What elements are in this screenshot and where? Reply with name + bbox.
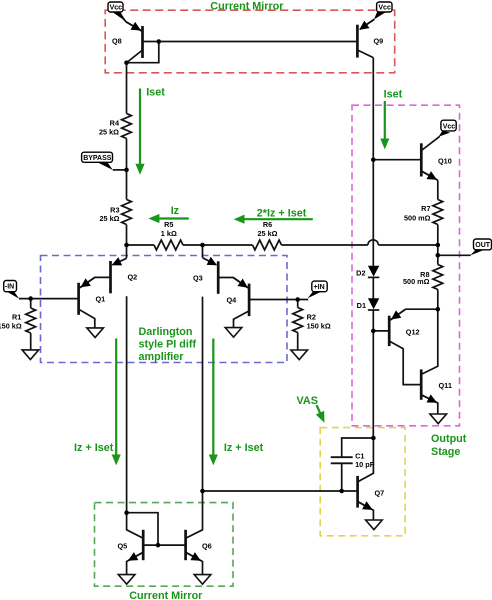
svg-text:Current Mirror: Current Mirror bbox=[129, 590, 203, 600]
svg-text:C1: C1 bbox=[355, 451, 364, 460]
svg-text:Q6: Q6 bbox=[202, 542, 212, 551]
svg-text:Vcc: Vcc bbox=[443, 123, 456, 130]
svg-text:150 kΩ: 150 kΩ bbox=[0, 321, 22, 330]
svg-text:25 kΩ: 25 kΩ bbox=[99, 214, 119, 223]
svg-text:R7: R7 bbox=[421, 204, 430, 213]
svg-text:Current Mirror: Current Mirror bbox=[210, 0, 284, 12]
svg-text:Q1: Q1 bbox=[96, 295, 106, 304]
svg-text:+IN: +IN bbox=[314, 284, 325, 291]
svg-text:Output: Output bbox=[431, 433, 467, 445]
svg-text:VAS: VAS bbox=[297, 395, 318, 407]
svg-text:style PI diff: style PI diff bbox=[139, 338, 197, 350]
svg-text:BYPASS: BYPASS bbox=[83, 155, 112, 162]
svg-text:-IN: -IN bbox=[5, 284, 14, 291]
svg-text:Q12: Q12 bbox=[406, 327, 420, 336]
svg-text:2*Iz + Iset: 2*Iz + Iset bbox=[257, 207, 307, 219]
svg-text:Vcc: Vcc bbox=[110, 5, 123, 12]
svg-text:Stage: Stage bbox=[431, 446, 460, 458]
svg-text:Q2: Q2 bbox=[128, 273, 138, 282]
svg-text:D1: D1 bbox=[357, 301, 366, 310]
svg-text:Q11: Q11 bbox=[439, 381, 452, 390]
svg-text:Iz + Iset: Iz + Iset bbox=[74, 442, 114, 454]
svg-text:1 kΩ: 1 kΩ bbox=[161, 229, 177, 238]
svg-text:Q5: Q5 bbox=[118, 542, 128, 551]
svg-text:500 mΩ: 500 mΩ bbox=[403, 277, 430, 286]
svg-text:500 mΩ: 500 mΩ bbox=[404, 213, 431, 222]
svg-text:OUT: OUT bbox=[475, 242, 491, 249]
svg-text:150 kΩ: 150 kΩ bbox=[307, 321, 331, 330]
svg-text:Q3: Q3 bbox=[193, 273, 203, 282]
svg-text:amplifier: amplifier bbox=[139, 351, 185, 363]
svg-text:25 kΩ: 25 kΩ bbox=[99, 128, 119, 137]
svg-text:R2: R2 bbox=[307, 313, 316, 322]
svg-text:Iz + Iset: Iz + Iset bbox=[224, 442, 264, 454]
svg-text:10 pF: 10 pF bbox=[355, 460, 375, 469]
svg-text:R5: R5 bbox=[164, 220, 173, 229]
svg-text:Iz: Iz bbox=[171, 205, 180, 217]
svg-text:Iset: Iset bbox=[384, 88, 403, 100]
svg-text:R1: R1 bbox=[12, 312, 21, 321]
svg-text:Q8: Q8 bbox=[112, 36, 122, 45]
svg-text:Q9: Q9 bbox=[374, 37, 384, 46]
svg-text:R6: R6 bbox=[263, 220, 272, 229]
svg-text:Vcc: Vcc bbox=[378, 5, 391, 12]
svg-text:Iset: Iset bbox=[146, 86, 165, 98]
svg-text:Q4: Q4 bbox=[227, 296, 238, 305]
svg-text:D2: D2 bbox=[356, 268, 365, 277]
svg-text:25 kΩ: 25 kΩ bbox=[257, 229, 277, 238]
svg-text:Q7: Q7 bbox=[375, 489, 385, 498]
svg-text:Darlington: Darlington bbox=[139, 326, 193, 338]
svg-text:Q10: Q10 bbox=[438, 157, 452, 166]
svg-text:R4: R4 bbox=[110, 119, 120, 128]
